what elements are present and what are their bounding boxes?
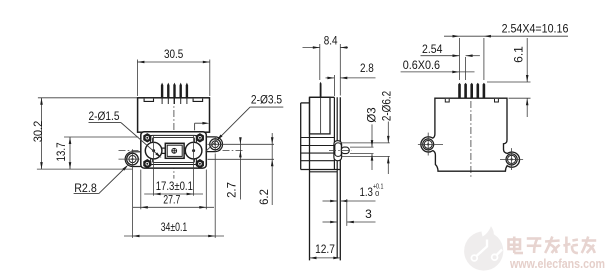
dimension 12.7	[310, 257, 341, 259]
side view top edge	[310, 96, 335, 98]
side view rear face line	[300, 103, 302, 170]
dimension 34±0.1	[132, 171, 134, 238]
svg-text:27.7: 27.7	[163, 192, 180, 206]
front view center square boss	[165, 143, 184, 158]
svg-text:30.5: 30.5	[164, 47, 184, 61]
svg-text:Ø3: Ø3	[365, 107, 379, 123]
front view bent leader at body right edge	[195, 122, 203, 124]
front view flange inner frame outer	[151, 135, 197, 164]
extension lines ear diameters	[341, 142, 390, 144]
svg-text:2.54: 2.54	[422, 42, 443, 56]
front view left circle centerline/extension	[153, 135, 155, 196]
side view rear top step	[301, 102, 310, 104]
svg-text:6.1: 6.1	[511, 46, 525, 63]
side view ear tab	[334, 141, 342, 161]
back view vertical centerline	[470, 88, 472, 179]
watermark chinese text	[509, 237, 524, 254]
dimension 2.7 right of front view	[221, 143, 244, 145]
dimension 13.7 left	[64, 136, 138, 138]
front view right circle centerline/extension	[193, 135, 195, 196]
side view flange layer line 2	[301, 145, 335, 147]
front view vertical centerline	[173, 84, 175, 179]
svg-text:13.7: 13.7	[54, 142, 68, 161]
svg-text:34±0.1: 34±0.1	[161, 220, 188, 234]
back view right ear hole	[506, 154, 517, 165]
back view body outline	[421, 98, 520, 171]
front view corner nut top-right	[197, 134, 204, 142]
side view ear centerline	[329, 149, 352, 151]
front view body outline	[138, 98, 210, 132]
svg-text:17.3±0.1: 17.3±0.1	[156, 179, 193, 193]
back view left ear crosshair	[418, 143, 443, 145]
side view front face line	[339, 97, 341, 260]
front view left big circle	[145, 142, 162, 159]
front view horizontal centerline	[119, 150, 243, 152]
back view right ear crosshair	[500, 158, 523, 160]
front view left mounting ear tab	[125, 152, 141, 167]
side view pin	[320, 82, 322, 98]
svg-text:30.2: 30.2	[31, 120, 45, 142]
front view right connecting bar	[184, 147, 186, 149]
front view corner nut bottom-left	[144, 160, 151, 168]
side view bottom line 2	[310, 171, 338, 173]
svg-text:2-Ø1.5: 2-Ø1.5	[89, 109, 120, 123]
svg-text:1.3: 1.3	[359, 185, 373, 199]
dimension 6.1	[487, 81, 531, 83]
side view front line a	[333, 97, 335, 169]
svg-text:R2.8: R2.8	[74, 181, 97, 195]
back view top-edge notch right	[495, 99, 499, 102]
front view left ear hole	[127, 153, 139, 165]
back view top-edge notch left	[445, 99, 449, 102]
dimension 8.4	[319, 44, 321, 80]
front view center rosette	[171, 148, 177, 154]
watermark logo circle	[464, 223, 503, 270]
dimension 30.5 top	[136, 60, 138, 97]
svg-text:3: 3	[365, 207, 372, 221]
dimension 27.7	[140, 170, 142, 210]
dimension 2-Ø6.2	[387, 122, 389, 143]
back view pins (5)	[458, 83, 461, 98]
dimension 30.2 left	[38, 97, 137, 99]
svg-text:12.7: 12.7	[315, 242, 335, 256]
front view flange inner frame inner	[153, 138, 195, 163]
front view top-edge notch left	[144, 99, 153, 102]
svg-text:2-Ø3.5: 2-Ø3.5	[251, 93, 282, 107]
front view pins (5)	[161, 83, 163, 98]
svg-text:2.7: 2.7	[225, 182, 239, 198]
side view ear washer	[335, 143, 341, 157]
svg-text:2.54X4=10.16: 2.54X4=10.16	[502, 21, 569, 35]
front view corner nut top-left	[144, 134, 151, 142]
front view corner nut bottom-right	[197, 160, 204, 168]
front view right mounting ear tab	[206, 137, 222, 152]
side view ear rivet	[341, 147, 349, 154]
dimension 2.8	[333, 75, 335, 96]
side view insulator box	[310, 97, 331, 134]
svg-text:2-Ø6.2: 2-Ø6.2	[380, 91, 394, 122]
side view flange layer line 1	[301, 137, 335, 139]
dimension Ø3	[371, 124, 373, 147]
svg-text:6.2: 6.2	[257, 189, 271, 205]
front view right big circle	[185, 142, 202, 159]
dimension 6.2 right of front view	[244, 143, 274, 145]
svg-text:0: 0	[375, 189, 379, 198]
front view center square inner	[167, 145, 182, 156]
side view front line b	[336, 97, 338, 258]
side view bottom line 1	[301, 169, 341, 171]
side view flange layer line 3	[301, 152, 335, 154]
dimension 17.3±0.1	[144, 193, 203, 195]
svg-text:8.4: 8.4	[324, 34, 338, 48]
front view right ear crosshair	[208, 143, 223, 145]
side view flange layer line 4	[301, 160, 335, 162]
back view left ear hole	[423, 139, 434, 150]
svg-text:0.6X0.6: 0.6X0.6	[403, 58, 441, 72]
dimension 3	[346, 199, 348, 226]
front view flange plate	[141, 132, 207, 168]
front view right ear hole	[210, 139, 221, 150]
front view top-edge notch right	[193, 99, 203, 102]
dimension 2.54X4=10.16	[459, 38, 461, 80]
svg-text:www.elecfans.com: www.elecfans.com	[509, 256, 605, 271]
side view back body line	[309, 97, 311, 260]
front view left connecting bar	[161, 147, 166, 149]
dimension 1.3 +0.1/0	[323, 200, 338, 202]
dimension 2.54	[465, 57, 467, 80]
front view left ear crosshair	[119, 158, 140, 160]
svg-text:2.8: 2.8	[360, 61, 374, 75]
